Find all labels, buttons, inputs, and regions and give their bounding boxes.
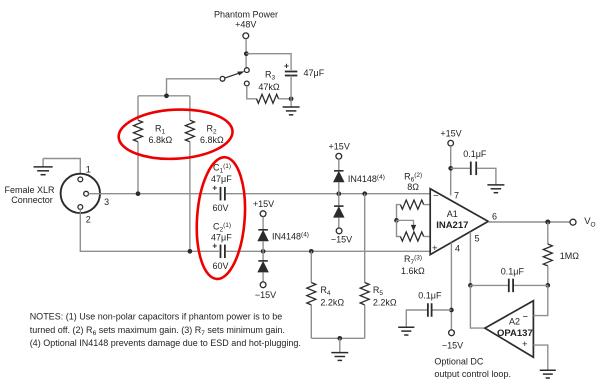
svg-text:2: 2 bbox=[86, 214, 91, 224]
power terminal +48V label bbox=[235, 20, 256, 30]
diode D1 IN4148 bbox=[257, 230, 269, 242]
capacitor C7 0.1uF plates bbox=[428, 303, 432, 317]
wire servo cap right lead bbox=[514, 284, 548, 286]
wire R4 R5 bottom rail bbox=[311, 337, 364, 339]
resistor R7 value 1.6kOhm bbox=[401, 266, 425, 276]
wire A2 plus input to ground bbox=[533, 345, 547, 370]
op-amp A1 INA217 triangle bbox=[430, 189, 488, 255]
XLR pin 1 contact bbox=[78, 177, 83, 182]
svg-text:1.6kΩ: 1.6kΩ bbox=[401, 266, 425, 276]
power terminal +15V (clamp B) bbox=[336, 153, 342, 159]
capacitor C2 value 47uF bbox=[211, 232, 232, 242]
wire pin5 node down to A2 output bbox=[470, 285, 485, 328]
power terminal +48V bbox=[243, 33, 249, 39]
node junction pin4 bypass bbox=[449, 308, 454, 313]
capacitor C6 0.1uF plates bbox=[509, 279, 513, 293]
capacitor C1 plates bbox=[221, 187, 225, 201]
node junction output 1M bbox=[545, 220, 550, 225]
op-amp A1 minus input mark bbox=[433, 191, 439, 202]
XLR pin 3 contact bbox=[84, 191, 89, 196]
wire junction down to R7 left bbox=[397, 220, 401, 236]
wire C2 to INA217 plus input bbox=[226, 250, 430, 252]
capacitor C5 0.1uF plates bbox=[471, 162, 476, 176]
resistor R7 potentiometer bbox=[400, 232, 423, 241]
net label Phantom Power bbox=[214, 10, 278, 20]
power terminal -15V (pin4) bbox=[449, 330, 455, 336]
wire R2 bottom to pin2 wire bbox=[189, 142, 191, 252]
svg-text:60V: 60V bbox=[213, 203, 229, 213]
switch SW1 top throw contact bbox=[244, 68, 249, 73]
annotation Optional DC output control loop bbox=[434, 357, 511, 380]
wire plus wire to diode D2 bbox=[262, 251, 264, 261]
resistor R6 value 8Ohm bbox=[407, 182, 419, 192]
svg-text:(4) Optional IN4148 prevents d: (4) Optional IN4148 prevents damage due … bbox=[30, 338, 301, 348]
svg-text:0.1μF: 0.1μF bbox=[418, 291, 442, 301]
pin 5 label bbox=[475, 234, 480, 244]
resistor R3 value 47kOhm bbox=[258, 82, 280, 92]
node junction pin5 cap bbox=[468, 283, 473, 288]
node junction diode clamp A on plus wire bbox=[261, 249, 266, 254]
op-amp A2 plus input mark bbox=[522, 339, 528, 350]
wire R6 right to INA217 pin1 bbox=[424, 204, 431, 206]
pin 4 label bbox=[455, 244, 460, 254]
output label Vo bbox=[584, 216, 595, 229]
svg-text:4: 4 bbox=[455, 244, 460, 254]
notes text block bbox=[30, 312, 301, 349]
op-amp A2 OPA137 triangle bbox=[485, 301, 534, 358]
switch SW1 blade with arrow bbox=[225, 71, 245, 78]
svg-text:+: + bbox=[432, 243, 438, 254]
power terminal +15V (pin7) bbox=[448, 140, 454, 146]
ground at XLR pin1 bbox=[33, 159, 80, 178]
resistor R5 bbox=[360, 283, 369, 305]
svg-text:−: − bbox=[433, 191, 439, 202]
ground at pin7 bypass bbox=[487, 185, 504, 193]
diode D3 IN4148 bbox=[333, 171, 345, 183]
svg-text:A2: A2 bbox=[509, 317, 520, 327]
svg-text:3: 3 bbox=[104, 197, 109, 207]
svg-text:−: − bbox=[523, 312, 529, 323]
svg-text:47μF: 47μF bbox=[304, 68, 325, 78]
capacitor C2 voltage 60V bbox=[213, 261, 229, 271]
XLR pin 2 contact bbox=[78, 205, 83, 210]
wire C1 to INA217 minus input bbox=[226, 193, 430, 195]
wire pin6 output to Vo bbox=[488, 221, 570, 223]
ground below R4 R5 bbox=[331, 338, 348, 360]
resistor R4 bbox=[307, 283, 316, 305]
resistor R2 bbox=[185, 120, 194, 142]
svg-text:+: + bbox=[212, 241, 217, 251]
XLR pin 2 label bbox=[86, 214, 91, 224]
wire junction to 47uF cap top bbox=[246, 54, 291, 70]
op-amp A1 part number INA217 bbox=[436, 220, 468, 231]
resistor R3 bbox=[257, 94, 279, 103]
svg-text:OPA137: OPA137 bbox=[497, 328, 533, 339]
wire minus wire to R5 bbox=[364, 194, 366, 283]
capacitor C1 value 47uF bbox=[211, 174, 232, 184]
wire D4 to -15V terminal bbox=[338, 218, 340, 228]
wire pin5 down bbox=[469, 232, 471, 286]
capacitor C4 value 47uF bbox=[304, 68, 325, 78]
wire switch pole to R1R2 top node bbox=[167, 79, 221, 96]
wire pin3 to C1 bbox=[89, 193, 220, 195]
wire top rail to R2 bbox=[189, 96, 191, 120]
red highlight ellipse around R1 R2 bbox=[117, 107, 233, 162]
wire R4 bottom bbox=[310, 305, 312, 338]
op-amp A2 label bbox=[509, 317, 520, 327]
capacitor C2 plates bbox=[221, 245, 225, 258]
svg-text:5: 5 bbox=[475, 234, 480, 244]
power terminal +15V label (clamp B) bbox=[329, 142, 350, 152]
svg-text:+: + bbox=[212, 183, 217, 193]
capacitor C1 plus mark bbox=[212, 183, 217, 193]
wire R5 bottom bbox=[364, 305, 366, 338]
wire 1M bottom to feedback node bbox=[547, 266, 549, 286]
op-amp A2 part number OPA137 bbox=[497, 328, 533, 339]
resistor R3 label bbox=[265, 70, 276, 82]
diode D1 label IN4148 bbox=[272, 232, 309, 242]
svg-text:60V: 60V bbox=[213, 261, 229, 271]
resistor R6 label bbox=[404, 171, 422, 183]
capacitor C5 value 0.1uF bbox=[463, 149, 487, 159]
capacitor C4 47uF polarized plates bbox=[285, 72, 298, 76]
resistor R1 value 6.8kOhm bbox=[149, 135, 173, 145]
svg-text:1: 1 bbox=[86, 164, 91, 174]
connector J1 Female XLR body bbox=[61, 174, 100, 213]
svg-text:6.8kΩ: 6.8kΩ bbox=[200, 135, 224, 145]
wire servo cap left lead bbox=[470, 284, 508, 286]
resistor R2 label bbox=[207, 124, 218, 136]
wire bottom throw to R3 bbox=[247, 86, 257, 99]
power terminal -15V (clamp A) bbox=[260, 282, 266, 288]
diode D2 IN4148 bbox=[257, 261, 269, 273]
svg-text:0.1μF: 0.1μF bbox=[501, 266, 525, 276]
resistor R1 label bbox=[155, 124, 166, 136]
wire pin4 bypass cap right lead bbox=[433, 309, 452, 311]
XLR pin 3 label bbox=[104, 197, 109, 207]
svg-text:Optional DC: Optional DC bbox=[434, 357, 484, 367]
node junction diode clamp B on minus wire bbox=[336, 191, 341, 196]
wire R3 to ground node bbox=[279, 98, 292, 100]
svg-text:INA217: INA217 bbox=[436, 220, 468, 231]
svg-text:2.2kΩ: 2.2kΩ bbox=[373, 297, 397, 307]
wire plus wire to R4 bbox=[310, 251, 312, 282]
wire +15V to diode D3 bbox=[338, 159, 340, 171]
connector label Female XLR Connector bbox=[4, 185, 55, 205]
power terminal +15V label (clamp A) bbox=[253, 199, 274, 209]
resistor R4 value 2.2kOhm bbox=[320, 297, 344, 307]
node junction bottom rail ground bbox=[337, 336, 342, 341]
svg-text:output control loop.: output control loop. bbox=[434, 369, 511, 379]
XLR pin 1 label bbox=[86, 164, 91, 174]
output terminal Vo bbox=[570, 219, 576, 225]
wire D3 to minus wire bbox=[338, 182, 340, 193]
wire R1 R2 top rail bbox=[138, 95, 190, 97]
resistor R5 label bbox=[373, 285, 384, 297]
resistor R8 value 1MOhm bbox=[560, 251, 580, 261]
svg-text:47kΩ: 47kΩ bbox=[258, 82, 280, 92]
switch SW1 bottom throw contact bbox=[244, 81, 249, 86]
wire R1 bottom to pin3 wire bbox=[137, 142, 139, 194]
ground at A2 plus input bbox=[540, 370, 556, 378]
resistor R8 1MOhm bbox=[543, 244, 552, 266]
svg-text:+: + bbox=[284, 61, 289, 71]
svg-text:6: 6 bbox=[492, 212, 497, 222]
node junction feedback right bbox=[545, 283, 550, 288]
resistor R4 label bbox=[320, 285, 331, 297]
wire D2 to -15V terminal bbox=[262, 272, 264, 282]
svg-text:+15V: +15V bbox=[329, 142, 350, 152]
svg-text:Female XLR: Female XLR bbox=[4, 185, 55, 195]
resistor R6 bbox=[400, 200, 423, 209]
wire minus wire to diode D4 bbox=[338, 194, 340, 206]
node junction switch feed on top rail bbox=[164, 93, 169, 98]
pin 6 label bbox=[492, 212, 497, 222]
capacitor C6 value 0.1uF bbox=[501, 266, 525, 276]
op-amp A1 label bbox=[447, 209, 458, 219]
node junction R4 on plus wire bbox=[309, 249, 314, 254]
op-amp A2 minus input mark bbox=[523, 312, 529, 323]
capacitor C1 voltage 60V bbox=[213, 203, 229, 213]
svg-text:−15V: −15V bbox=[442, 340, 463, 350]
wire D1 to plus wire bbox=[262, 241, 264, 251]
pin 7 label bbox=[454, 191, 459, 201]
wire bypass cap to ground bbox=[477, 168, 496, 185]
ground below phantom cap bbox=[283, 99, 300, 115]
svg-text:Phantom Power: Phantom Power bbox=[214, 10, 278, 20]
power terminal -15V label (clamp A) bbox=[255, 290, 276, 300]
switch SW1 pole contact bbox=[220, 76, 225, 81]
node junction gain wiper bbox=[394, 218, 399, 223]
capacitor C2 label bbox=[213, 222, 231, 234]
svg-text:0.1μF: 0.1μF bbox=[463, 149, 487, 159]
power terminal -15V label (clamp B) bbox=[331, 235, 352, 245]
power terminal +15V label (pin7) bbox=[440, 129, 461, 139]
red highlight ellipse around C1 C2 bbox=[193, 156, 249, 281]
svg-text:A1: A1 bbox=[447, 209, 458, 219]
node junction at +48V feed bbox=[244, 51, 249, 56]
resistor R2 value 6.8kOhm bbox=[200, 135, 224, 145]
wire junction to bypass cap bbox=[451, 167, 470, 169]
resistor R1 bbox=[134, 120, 143, 142]
svg-text:2.2kΩ: 2.2kΩ bbox=[320, 297, 344, 307]
wire pin2 down and right to C2 bbox=[80, 209, 219, 251]
wire pin4 bypass cap to ground bbox=[406, 310, 427, 327]
svg-text:1MΩ: 1MΩ bbox=[560, 251, 580, 261]
wire pin4 down to -15V bbox=[450, 242, 452, 330]
diode D3 label IN4148 bbox=[348, 174, 385, 184]
capacitor C4 plus polarity mark bbox=[284, 61, 289, 71]
svg-text:−15V: −15V bbox=[331, 235, 352, 245]
svg-text:+15V: +15V bbox=[253, 199, 274, 209]
node junction pin7 bypass bbox=[448, 166, 453, 171]
capacitor C7 value 0.1uF bbox=[418, 291, 442, 301]
node junction R3 cap ground bbox=[289, 96, 294, 101]
svg-text:8Ω: 8Ω bbox=[407, 182, 419, 192]
svg-text:−15V: −15V bbox=[255, 290, 276, 300]
power terminal -15V (clamp B) bbox=[336, 228, 342, 234]
wire R6 left side bbox=[397, 205, 401, 221]
wire cap bottom to junction bbox=[290, 76, 292, 99]
resistor R7 label bbox=[404, 254, 422, 266]
capacitor C2 plus mark bbox=[212, 241, 217, 251]
svg-text:+48V: +48V bbox=[235, 20, 256, 30]
svg-text:+: + bbox=[522, 339, 528, 350]
svg-text:6.8kΩ: 6.8kΩ bbox=[149, 135, 173, 145]
node junction R2 on pin2 wire bbox=[188, 249, 193, 254]
wire output down to 1M bbox=[547, 222, 549, 244]
wire top rail to R1 bbox=[137, 96, 139, 120]
svg-text:Connector: Connector bbox=[11, 195, 53, 205]
node junction R5 on minus wire bbox=[362, 191, 367, 196]
svg-text:7: 7 bbox=[454, 191, 459, 201]
wire +48V to switch junction bbox=[245, 39, 247, 68]
power terminal +15V (clamp A) bbox=[260, 211, 266, 217]
ground at pin4 bypass bbox=[398, 327, 414, 335]
node junction R1 on pin3 wire bbox=[136, 191, 141, 196]
wire A2 minus input to feedback node bbox=[533, 285, 547, 315]
capacitor C1 label bbox=[213, 163, 231, 175]
svg-text:NOTES: (1) Use non-polar capac: NOTES: (1) Use non-polar capacitors if p… bbox=[30, 312, 283, 322]
wire +15V down to pin 7 bbox=[450, 146, 452, 195]
power terminal -15V label (pin4) bbox=[442, 340, 463, 350]
wire R7 right to INA217 pin8 bbox=[424, 236, 431, 238]
wire +15V to diode D1 bbox=[262, 217, 264, 230]
resistor R5 value 2.2kOhm bbox=[373, 297, 397, 307]
op-amp A1 plus input mark bbox=[432, 243, 438, 254]
svg-text:+15V: +15V bbox=[440, 129, 461, 139]
gain wiper arrow onto R7 bbox=[397, 220, 417, 231]
diode D4 IN4148 bbox=[333, 206, 345, 218]
